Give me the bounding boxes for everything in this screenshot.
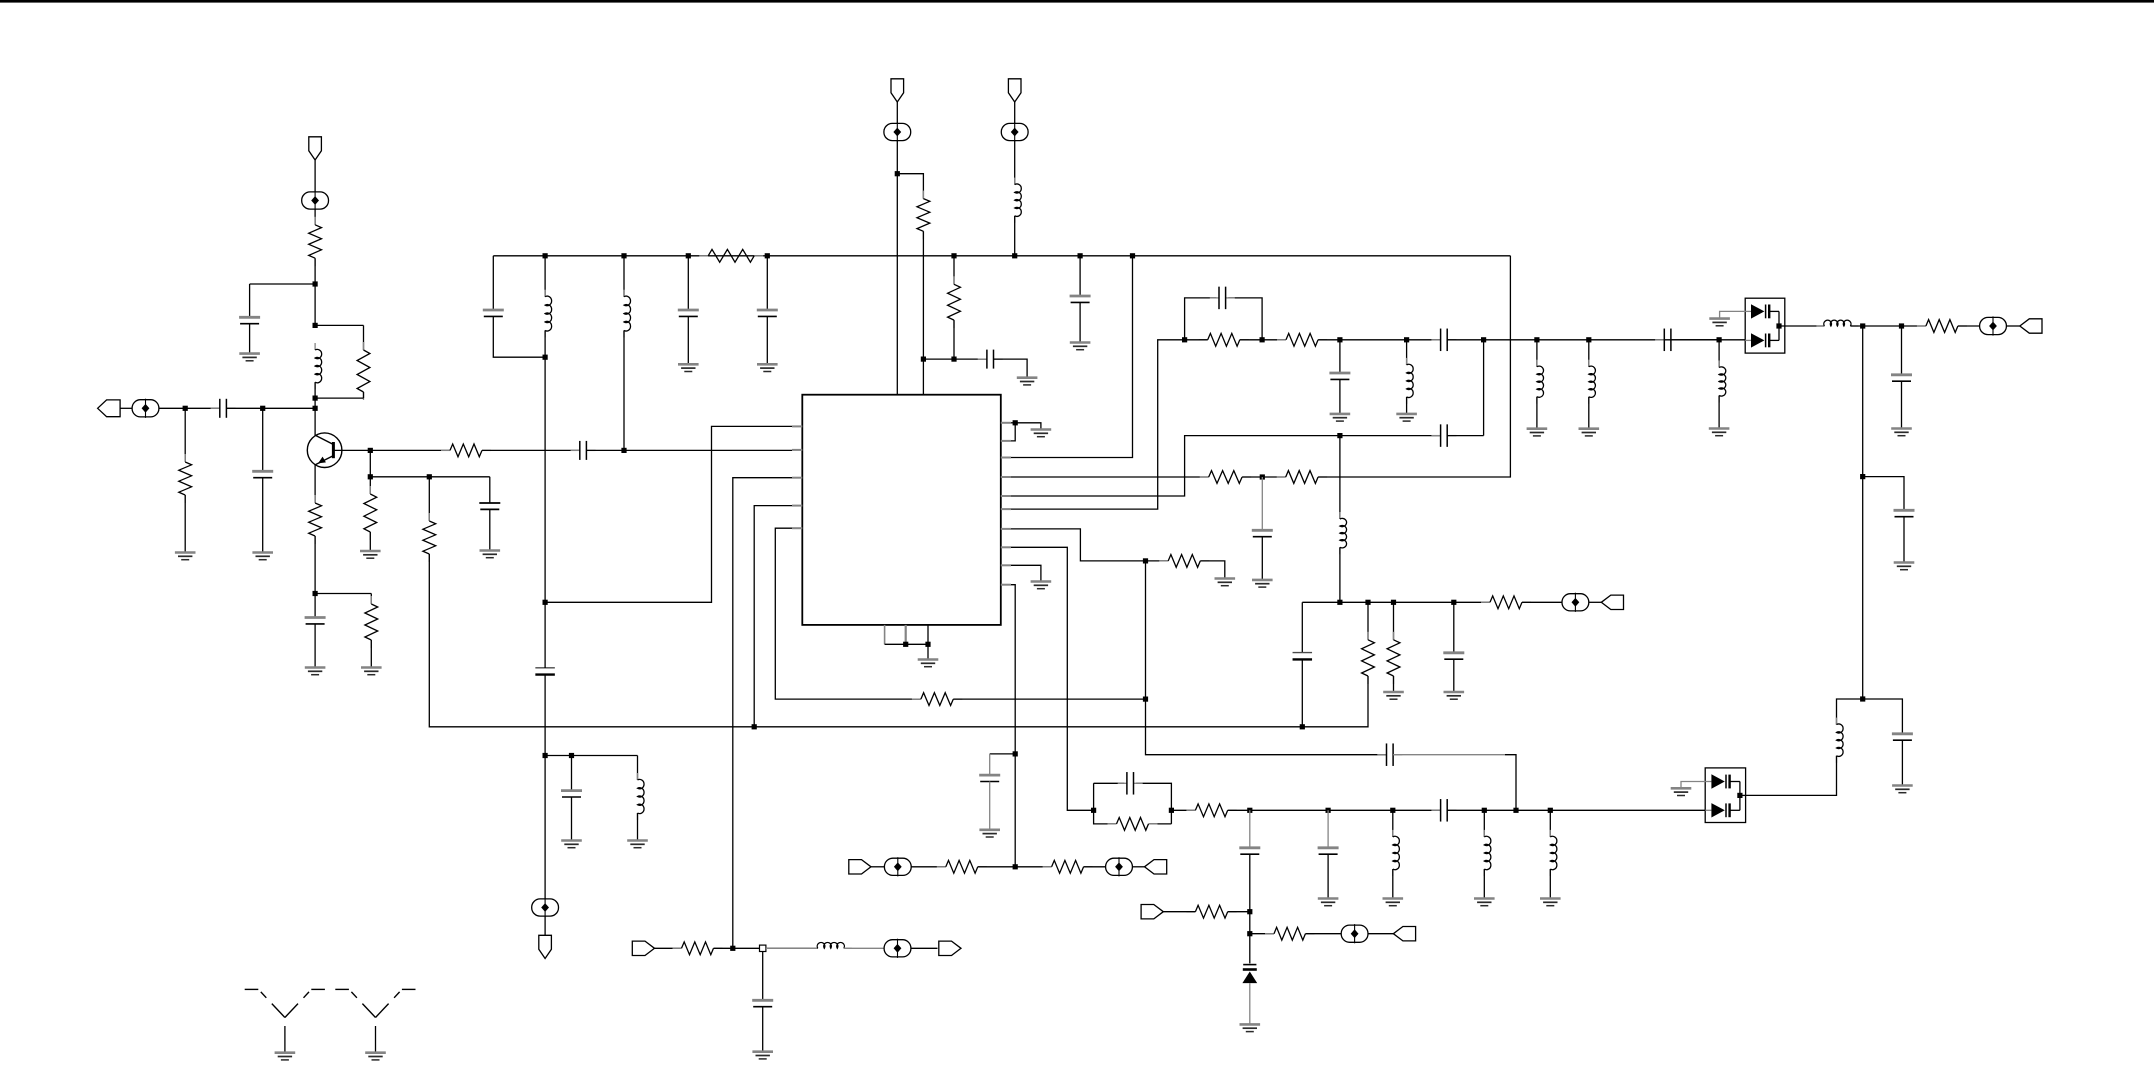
ground [305, 668, 326, 675]
wire [1671, 339, 1745, 341]
wire collector [314, 408, 316, 436]
wire [1588, 340, 1590, 367]
wire [1720, 311, 1746, 318]
wire [775, 528, 921, 699]
wire [1339, 379, 1341, 414]
junction [1300, 724, 1305, 729]
pin stub [905, 625, 907, 644]
junction [1534, 337, 1539, 342]
resistor R29 [912, 693, 962, 706]
inductor L6 [1407, 358, 1414, 404]
resistor R21 [1186, 905, 1236, 918]
ground [1240, 1024, 1261, 1031]
capacitor C6 [571, 441, 596, 460]
wire emitter [314, 465, 316, 503]
ground [1444, 692, 1465, 699]
capacitor C29 [1443, 653, 1464, 659]
inductor L15 [1340, 512, 1347, 554]
ground [1709, 319, 1730, 326]
pin stub [1001, 528, 1011, 530]
junction [765, 253, 770, 258]
wire [1447, 339, 1719, 341]
junction [1326, 808, 1331, 813]
wire [1901, 381, 1903, 428]
wire [315, 397, 363, 399]
junction [686, 253, 691, 258]
wire [544, 602, 546, 668]
wire [1302, 676, 1368, 727]
wire [544, 357, 546, 602]
ground [1892, 786, 1913, 793]
junction [1013, 864, 1018, 869]
wire [120, 407, 133, 409]
junction [313, 396, 318, 401]
ground [1383, 692, 1404, 699]
ground [1330, 414, 1351, 421]
junction [1481, 337, 1486, 342]
RC network C16 R15 [1185, 298, 1263, 340]
junction [1143, 558, 1148, 563]
wire [369, 532, 371, 551]
inductor L10 [1816, 320, 1858, 326]
wire [1903, 517, 1905, 563]
test point TP2 [302, 191, 329, 210]
wire [1863, 477, 1904, 511]
junction [543, 600, 548, 605]
junction [427, 474, 432, 479]
junction [313, 591, 318, 596]
wire [623, 256, 625, 297]
pin stub [1001, 584, 1011, 586]
wire [1327, 810, 1329, 848]
junction [925, 642, 930, 647]
resistor R24 [1387, 632, 1400, 684]
resistor R23 [1362, 632, 1375, 684]
wire [1863, 699, 1903, 734]
wire [1132, 866, 1144, 868]
junction [1182, 337, 1187, 342]
junction [1717, 337, 1722, 342]
pin stub [1001, 508, 1011, 510]
junction [1482, 808, 1487, 813]
wire [314, 398, 316, 408]
ground [1070, 343, 1091, 350]
pin stub [1001, 476, 1011, 478]
junction [1337, 337, 1342, 342]
test point TP9 [884, 857, 911, 876]
wire [994, 359, 1028, 378]
connector J4 [1393, 927, 1415, 941]
junction [313, 406, 318, 411]
wire [314, 258, 316, 284]
ground [1894, 563, 1915, 570]
node [760, 945, 766, 951]
RC network C23 R18 [1094, 783, 1172, 824]
wire [1305, 933, 1341, 935]
capacitor C13 [561, 791, 582, 797]
wire [369, 450, 371, 476]
wire [897, 174, 923, 199]
wire [687, 316, 689, 364]
wire [1011, 476, 1209, 478]
ground [757, 364, 778, 371]
wire [544, 330, 546, 357]
capacitor C7 [483, 310, 504, 316]
wire [314, 594, 316, 618]
wire [923, 358, 987, 360]
junction [1013, 751, 1018, 756]
capacitor C22 [1892, 734, 1913, 740]
top border bar [0, 0, 2154, 3]
wire [1079, 256, 1081, 296]
inductor L11 [1837, 718, 1844, 763]
capacitor C14 [1252, 530, 1273, 536]
resistor R27 [1043, 860, 1093, 873]
ground [1671, 788, 1692, 795]
connector J2 RF out [2020, 319, 2042, 333]
antenna ANT1 [245, 989, 325, 1052]
wire [1958, 325, 1980, 327]
wire [1084, 866, 1106, 868]
wire [1011, 529, 1168, 561]
wire [1862, 326, 1864, 699]
wire [1393, 676, 1395, 692]
capacitor C5 [479, 503, 500, 509]
wire [1228, 809, 1441, 811]
resistor R10 [917, 191, 930, 240]
wire [1453, 602, 1455, 653]
resistor R11 [948, 276, 961, 328]
ground [480, 551, 501, 558]
wire [1015, 423, 1041, 430]
capacitor C30 [752, 1000, 773, 1006]
wire [1163, 911, 1195, 913]
wire [545, 426, 792, 602]
junction [1776, 323, 1781, 328]
wire [1681, 782, 1705, 789]
wire [1483, 810, 1485, 837]
wire [370, 594, 372, 605]
wire [1779, 325, 1824, 327]
wire [1011, 565, 1041, 581]
pin stub [1001, 440, 1011, 442]
capacitor C11 [1070, 296, 1091, 302]
ground [1031, 430, 1052, 437]
capacitor C12 [535, 668, 555, 675]
inductor L3 [624, 290, 631, 338]
wire [1014, 216, 1016, 256]
wire [370, 476, 490, 478]
ground [627, 841, 648, 848]
wire [1483, 340, 1485, 436]
wire base [333, 449, 370, 451]
ground [1891, 429, 1912, 436]
junction [1337, 433, 1342, 438]
wire [1301, 659, 1303, 727]
wire [370, 640, 372, 668]
capacitor C27 [1431, 799, 1456, 822]
capacitor C1 [211, 399, 236, 418]
junction [1337, 600, 1342, 605]
inductor L2 [545, 290, 552, 338]
wire [262, 408, 264, 471]
capacitor C16 [1210, 287, 1235, 310]
wire [766, 316, 768, 364]
wire [1011, 422, 1015, 424]
resistor R8 [441, 444, 491, 457]
wire [159, 407, 220, 409]
junction [951, 357, 956, 362]
ground [1215, 579, 1236, 586]
capacitor C24 [1118, 772, 1143, 795]
ground [918, 660, 939, 667]
wire [1505, 755, 1516, 811]
resistor R28 [673, 942, 723, 955]
junction [921, 357, 926, 362]
wire [1339, 547, 1341, 602]
junction [621, 448, 626, 453]
junction [1260, 337, 1265, 342]
wire [1718, 340, 1720, 368]
wire [1249, 983, 1251, 1024]
ground [175, 553, 196, 560]
wire [1249, 810, 1251, 848]
pin stub [1001, 564, 1011, 566]
capacitor C4 [305, 618, 326, 624]
wire [953, 256, 955, 284]
wire [637, 813, 639, 841]
ground [1579, 429, 1600, 436]
wire [1011, 436, 1441, 496]
wire [314, 160, 316, 192]
junction [730, 946, 735, 951]
ground [239, 354, 260, 361]
ground [1474, 899, 1495, 906]
junction [313, 323, 318, 328]
junction [1737, 793, 1742, 798]
capacitor C32 [1431, 424, 1456, 447]
capacitor C8 [678, 310, 699, 316]
wire [249, 324, 251, 354]
junction [1365, 600, 1370, 605]
wire [1837, 699, 1863, 725]
test point TP8 [1562, 593, 1589, 612]
wire [989, 782, 991, 830]
IC U1 [802, 395, 1001, 625]
wire [1339, 436, 1341, 519]
resistor R7 [423, 513, 436, 562]
wire [314, 624, 316, 668]
ground [275, 1053, 296, 1060]
wire VCC bus [493, 255, 1510, 257]
ground [1527, 429, 1548, 436]
wire [978, 866, 1052, 868]
wire [1368, 933, 1394, 935]
connector P1 VCC [309, 137, 322, 160]
capacitor C26 [1318, 848, 1339, 854]
ground [1540, 899, 1561, 906]
wire [1850, 325, 1926, 327]
junction [1513, 808, 1518, 813]
wire [315, 324, 363, 326]
pin stub [1001, 422, 1011, 424]
wire [1200, 561, 1225, 579]
ground [1383, 899, 1404, 906]
wire [1901, 326, 1903, 375]
wire [911, 947, 938, 949]
pin stub [1001, 457, 1011, 459]
test point TP5 [532, 898, 559, 917]
ground [979, 830, 1000, 837]
junction [543, 355, 548, 360]
test point TP7 [1341, 924, 1368, 943]
junction [951, 253, 956, 258]
wire [1014, 140, 1016, 184]
wire [545, 755, 637, 757]
wire [314, 536, 316, 594]
junction [895, 171, 900, 176]
inductor L14 [1550, 830, 1557, 876]
wire [1318, 256, 1510, 477]
junction [1260, 474, 1265, 479]
wire [989, 754, 991, 775]
wire [489, 509, 491, 550]
wire [1588, 397, 1590, 429]
resistor R12 [1200, 471, 1251, 484]
wire [762, 1007, 764, 1052]
connector P3 VCC [1008, 79, 1021, 102]
wire [687, 256, 689, 310]
wire [429, 554, 754, 727]
junction [1860, 696, 1865, 701]
capacitor C9 [757, 310, 778, 316]
wire [1406, 397, 1408, 414]
wire [655, 947, 682, 949]
junction [1247, 909, 1252, 914]
inductor L13 [1484, 830, 1491, 876]
wire [363, 325, 365, 350]
wire [766, 947, 818, 949]
junction [1091, 808, 1096, 813]
ground [360, 551, 381, 558]
capacitor C20 [1891, 375, 1912, 381]
wire [1522, 601, 1562, 603]
wire [927, 644, 929, 659]
wire [544, 756, 546, 900]
ground [1031, 582, 1052, 589]
wire [586, 449, 792, 451]
pin stub [792, 477, 802, 479]
wire [1447, 435, 1483, 437]
wire [922, 231, 924, 394]
junction [1548, 808, 1553, 813]
wire [896, 140, 898, 395]
ground [361, 668, 382, 675]
ground [1709, 429, 1730, 436]
wire [1589, 601, 1602, 603]
wire [493, 316, 545, 357]
ground [1396, 414, 1417, 421]
test point TP4 [1001, 122, 1028, 141]
junction [368, 474, 373, 479]
resistor R2 [309, 217, 322, 266]
wire [226, 407, 315, 409]
ground [1252, 580, 1273, 587]
wire [1302, 601, 1490, 603]
wire [953, 320, 955, 359]
resistor R5 [365, 596, 378, 648]
resistor R22 [1265, 927, 1314, 940]
diode pack D2 [1705, 768, 1745, 823]
pin stub [1001, 546, 1011, 548]
wire [1549, 869, 1551, 898]
wire [184, 408, 186, 462]
wire [1483, 869, 1485, 898]
wire [1011, 256, 1133, 458]
wire [754, 726, 1302, 728]
wire [1011, 585, 1015, 867]
junction [313, 281, 318, 286]
junction [543, 253, 548, 258]
wire [1393, 602, 1395, 640]
wire [766, 256, 768, 310]
inductor L9 [1719, 361, 1726, 403]
wire [315, 593, 371, 595]
inductor L12 [1393, 830, 1400, 876]
ground [1318, 899, 1339, 906]
test point TP10 [1106, 857, 1133, 876]
pin stub [884, 625, 886, 644]
junction [1012, 253, 1017, 258]
wire [1406, 340, 1408, 365]
junction [621, 253, 626, 258]
wire [885, 643, 928, 645]
wire [1261, 537, 1263, 580]
wire [544, 916, 546, 936]
wire [1171, 809, 1195, 811]
connector J7 [1145, 860, 1167, 874]
junction [1013, 420, 1018, 425]
test point TP6 [1980, 316, 2007, 335]
junction [1130, 253, 1135, 258]
inductor L16 [810, 942, 852, 948]
diode pack D1 [1745, 298, 1785, 353]
junction [1860, 474, 1865, 479]
junction [543, 753, 548, 758]
pin stub [792, 527, 802, 529]
wire [250, 283, 316, 285]
wire [1185, 339, 1208, 341]
wire [1228, 911, 1250, 913]
capacitor C28 [1293, 653, 1313, 660]
wire [1014, 102, 1016, 124]
wire [1250, 933, 1274, 935]
inductor L7 [1537, 360, 1544, 404]
varactor D3 [1242, 965, 1257, 984]
test point TP11 [884, 939, 911, 958]
capacitor C17 [1329, 373, 1350, 379]
wire [1261, 477, 1263, 530]
inductor L1 [315, 343, 322, 389]
junction [1899, 323, 1904, 328]
resistor R19 [1108, 818, 1158, 831]
wire [544, 256, 546, 297]
wire [871, 866, 885, 868]
wire [369, 477, 371, 494]
wire [1367, 602, 1369, 640]
capacitor C18 [1431, 329, 1456, 352]
junction [1247, 808, 1252, 813]
